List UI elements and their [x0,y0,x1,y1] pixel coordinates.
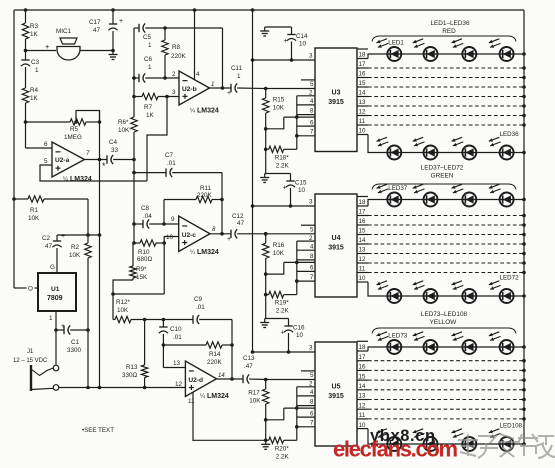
svg-text:3: 3 [309,199,313,206]
pin U5.14 [357,389,368,391]
svg-text:R10: R10 [138,249,150,256]
svg-text:LED73: LED73 [388,333,407,340]
svg-text:10: 10 [359,128,366,135]
pin U3.17 [357,67,368,69]
pin U3.5 signal input [301,79,315,81]
resistor R15 [265,89,267,99]
IC U3 3915 [315,48,357,152]
svg-text:+: + [45,42,50,51]
svg-text:R8: R8 [172,44,181,51]
svg-text:1K: 1K [146,112,155,119]
wire C9 feedback down [231,320,233,380]
svg-text:11: 11 [359,412,366,419]
wire LED row [387,152,524,154]
svg-text:R18*: R18* [275,154,290,161]
resistor R17 [265,380,267,390]
svg-text:C10: C10 [170,326,182,333]
LED LED1-4[4] [489,39,514,61]
pin U4.13 [357,253,368,255]
wire pin10 bias link [163,243,165,294]
svg-text:12 – 15 VDC: 12 – 15 VDC [13,358,48,364]
capacitor C10 [162,320,164,328]
wire pin5 bias [40,165,147,181]
svg-text:LED1: LED1 [388,40,404,47]
svg-text:7809: 7809 [47,295,63,302]
svg-text:1: 1 [237,73,241,80]
svg-text:1MEG: 1MEG [64,134,82,141]
wire dashed row U4.17 [368,215,524,217]
wire dashed row U3.13 [368,105,524,107]
svg-text:LED72: LED72 [500,275,519,282]
wire signal rail mid [133,160,135,244]
pin U5.13 [357,399,368,401]
capacitor C12 [230,230,232,238]
capacitor C17 [112,10,114,24]
svg-text:8: 8 [310,398,314,405]
wire pin6 input [26,147,53,149]
svg-text:3300: 3300 [67,347,82,354]
wire dashed row U5.14 [368,389,524,391]
svg-text:10K: 10K [249,398,261,405]
svg-text:1: 1 [148,64,152,71]
svg-text:.47: .47 [244,363,253,370]
svg-text:YELLOW: YELLOW [430,319,458,326]
wire dashed row U3.15 [368,86,524,88]
svg-text:•SEE TEXT: •SEE TEXT [82,427,114,434]
IC U4 3915 [315,194,357,297]
resistor R9* [130,266,136,278]
wire dashed row U3.17 [368,67,524,69]
resistor R11 [163,200,165,225]
svg-text:2: 2 [309,381,313,388]
capacitor C6 [134,77,139,79]
wire right LED bus [523,10,525,444]
svg-text:14: 14 [218,373,225,379]
svg-text:6: 6 [310,119,314,126]
pin U3.16 [357,77,368,79]
wire dashed row U5.13 [368,399,524,401]
svg-text:6: 6 [44,141,48,148]
svg-text:R13: R13 [126,364,138,371]
svg-text:7: 7 [310,420,314,427]
svg-text:U2-d: U2-d [188,377,203,384]
capacitor C15 [290,174,292,182]
brace yellow group [372,328,516,334]
svg-text:6: 6 [310,410,314,417]
svg-text:C8: C8 [141,205,150,212]
resistor R14 [163,344,206,346]
pin U3.6 tab [284,116,315,118]
brace red group [372,36,516,42]
svg-text:+: + [283,185,287,192]
pin U4.5 signal input [301,224,315,226]
svg-text:10: 10 [298,187,306,194]
IC U5 3915 [315,342,357,446]
wire dashed row U4.14 [368,243,524,245]
svg-text:C14: C14 [296,33,308,40]
svg-text:LED1–LED36: LED1–LED36 [430,20,470,27]
wire bias node [57,234,100,236]
wire dashed row U5.15 [368,379,524,381]
LED LED73-76[1] [377,332,402,354]
svg-text:LED73–LED108: LED73–LED108 [421,311,468,318]
LED LED69-72[4] [489,281,514,303]
wire U2-c output [210,233,231,235]
wire LED row [387,443,524,445]
svg-text:3915: 3915 [328,99,344,106]
wire rail jog [113,280,133,320]
svg-text:15: 15 [359,373,366,380]
resistor R16 [265,234,267,244]
resistor R5 [26,121,71,123]
LED LED73-76[4] [489,332,514,354]
svg-text:C9: C9 [194,296,203,303]
svg-text:330Ω: 330Ω [122,372,138,379]
pin U3.13 [357,105,368,107]
svg-text:U2-c: U2-c [182,232,197,239]
wire U4 ref tie [266,262,284,274]
wire dashed row U3.11 [368,124,524,126]
svg-text:11: 11 [188,398,195,405]
pin U3.2 tab [297,95,315,97]
svg-text:1K: 1K [30,95,39,102]
svg-text:47: 47 [237,220,245,227]
microphone MIC1 [57,47,80,61]
wire pin13 input [162,345,164,368]
wire dashed row U3.12 [368,115,524,117]
svg-text:14: 14 [359,90,366,97]
pin U3.7 tab [297,135,315,137]
svg-text:C1: C1 [71,339,80,346]
LED LED37-40[2] [413,184,438,206]
svg-text:18: 18 [359,52,366,59]
pin U5.6 tab [284,407,315,409]
wire dashed row U3.14 [368,96,524,98]
wire dashed row U4.11 [368,272,524,274]
svg-text:R12*: R12* [116,299,131,306]
svg-text:.01: .01 [196,304,205,311]
wire pin3 bias link [147,97,167,182]
svg-text:LM324: LM324 [197,108,219,115]
brace green group [372,184,516,190]
svg-text:14: 14 [359,383,366,390]
LED LED37-40[1] [377,184,402,206]
resistor R7 [134,96,142,98]
pin U4.6 tab [284,261,315,263]
svg-text:12: 12 [359,402,366,409]
svg-text:220K: 220K [171,53,187,60]
pin U3.11 [357,124,368,126]
svg-text:R20*: R20* [275,445,290,452]
svg-text:5: 5 [310,226,314,233]
resistor R18* 2.2K [266,148,269,150]
svg-text:C2: C2 [42,235,51,242]
wire U3 pin3 V+ [253,59,316,61]
svg-text:7: 7 [310,274,314,281]
svg-text:C6: C6 [144,56,153,63]
regulator U1 7809 [38,273,76,311]
capacitor C8 [134,223,143,225]
svg-text:U5: U5 [332,384,341,391]
pin U5.5 signal input [301,370,315,372]
pin U5.10 [357,428,368,430]
ground U3 bypass [265,26,292,28]
svg-text:11: 11 [359,266,366,273]
svg-text:18: 18 [359,344,366,351]
svg-text:10K: 10K [69,252,81,259]
pin U3.8 tab [297,114,315,116]
LED LED37-40[4] [489,184,514,206]
op-amp U2-b [179,71,210,105]
LED LED105-108[3] [452,429,477,451]
svg-text:9: 9 [171,216,175,223]
resistor R4 [22,88,28,103]
wire U1 pin1 [55,311,57,330]
pin U4.10 [357,281,368,283]
svg-text:RED: RED [442,28,456,35]
pin U3.18 [357,58,368,60]
wire top supply rail [14,9,524,11]
LED LED105-108[1] [377,429,402,451]
pin U3.4 tab [297,104,315,106]
LED LED69-72[1] [377,281,402,303]
capacitor C14 [291,27,293,35]
pin U4.4 tab [297,249,315,251]
svg-text:15K: 15K [136,274,148,281]
resistor R1 [12,197,16,201]
wire dashed row U5.16 [368,369,524,371]
svg-text:U4: U4 [332,235,341,242]
svg-text:14: 14 [359,237,366,244]
pin U4.16 [357,224,368,226]
LED LED37-40[3] [452,184,477,206]
wire U2-a output [85,159,108,161]
ground U4 bypass [265,173,291,175]
svg-text:R9*: R9* [136,266,147,273]
resistor R19* 2.2K [266,294,269,296]
svg-text:3915: 3915 [328,245,344,252]
svg-text:12: 12 [359,109,366,116]
LED LED105-108[4] [489,429,514,451]
pin U3.10 [357,134,368,136]
svg-text:13: 13 [359,99,366,106]
svg-text:C15: C15 [295,180,307,187]
svg-text:2.2K: 2.2K [276,308,290,315]
svg-text:10: 10 [299,41,307,48]
svg-text:15: 15 [359,80,366,87]
svg-text:.04: .04 [143,213,152,220]
capacitor C13 [242,375,244,383]
svg-text:16: 16 [359,364,366,371]
svg-text:5: 5 [44,158,48,165]
ground bottom rail [265,440,267,444]
svg-text:C16: C16 [293,325,305,332]
watermark chinese characters [458,434,555,458]
op-amp U2-c [179,216,210,252]
svg-text:2.2K: 2.2K [276,453,290,460]
svg-text:8: 8 [310,107,314,114]
pin U3.12 [357,115,368,117]
svg-text:10K: 10K [273,250,285,257]
svg-text:+: + [227,236,231,243]
svg-text:3915: 3915 [328,393,344,400]
svg-text:+: + [119,18,123,25]
svg-text:6: 6 [310,265,314,272]
wire dashed row U4.13 [368,253,524,255]
svg-text:5: 5 [310,81,314,88]
wire LED row [387,295,524,297]
svg-text:17: 17 [359,61,366,68]
svg-text:3: 3 [309,53,313,60]
capacitor C5 [134,27,139,29]
svg-text:4: 4 [310,243,314,250]
svg-text:10: 10 [359,422,366,429]
LED LED1-4[2] [413,39,438,61]
wire pin tie vertical U5 [296,387,298,427]
resistor R13 [144,320,146,366]
wire left supply rail [13,10,15,288]
svg-text:C5: C5 [143,34,152,41]
svg-text:10K: 10K [28,215,40,222]
svg-text:elecfans.com: elecfans.com [333,437,458,462]
pin U4.11 [357,272,368,274]
resistor R6* [131,117,137,132]
svg-text:U3: U3 [332,89,341,96]
pin U3.15 [357,86,368,88]
pin U4.2 tab [297,240,315,242]
capacitor C9 [192,315,194,323]
wire dashed row U4.12 [368,262,524,264]
wire mic output [80,50,113,52]
svg-text:R4: R4 [30,87,39,94]
wire dashed row U4.15 [368,234,524,236]
pin U5.18 [357,350,368,352]
svg-text:R7: R7 [144,104,153,111]
capacitor C11 [230,84,232,92]
svg-text:12: 12 [359,256,366,263]
wire C1 to rail [87,330,89,388]
svg-text:2: 2 [172,71,176,78]
pin stub top U5 [357,340,368,342]
ground mic [112,51,114,55]
svg-text:+: + [284,38,288,45]
wire U2a bias rail down [99,111,101,236]
svg-text:U2-a: U2-a [55,157,70,164]
pin stub top U3 [357,48,368,50]
wire pin tie vertical U4 [296,241,298,281]
wire V+ bus [252,10,254,352]
ground U5 bypass [265,318,289,320]
svg-text:O: O [28,286,33,293]
node mic+ [24,49,28,53]
capacitor C2 [56,235,58,241]
svg-text:17: 17 [359,209,366,216]
wire dashed row U5.12 [368,408,524,410]
svg-text:MIC1: MIC1 [56,28,72,35]
wire U5 ref tie [266,408,284,420]
resistor R10 [132,241,136,245]
resistor R8 [164,28,166,40]
svg-text:*: * [102,161,106,171]
svg-text:10K: 10K [273,105,285,112]
svg-text:LM324: LM324 [70,176,92,183]
svg-text:C3: C3 [31,59,40,66]
LED LED33-36[4] [489,137,514,159]
svg-text:680Ω: 680Ω [137,256,153,263]
svg-text:220K: 220K [197,192,213,199]
svg-text:4: 4 [310,389,314,396]
svg-text:1: 1 [35,67,39,74]
svg-text:10: 10 [296,332,304,339]
svg-text:G: G [50,264,55,271]
svg-text:J1: J1 [27,349,34,355]
resistor R12* [113,319,115,321]
pin U5.4 tab [297,395,315,397]
wire U1 input [14,287,27,289]
svg-text:2: 2 [309,90,313,97]
pin stub top U4 [357,196,368,198]
pin U3.14 [357,96,368,98]
wire U2-d output [217,378,244,380]
pin U5.16 [357,369,368,371]
pin U5.8 tab [297,405,315,407]
svg-text:5: 5 [310,372,314,379]
svg-text:10: 10 [166,234,174,241]
svg-text:4: 4 [196,71,200,78]
svg-text:LED36: LED36 [500,131,519,138]
wire C7 feedback down [221,173,223,234]
pin U4.12 [357,262,368,264]
svg-text:LM324: LM324 [207,393,229,400]
wire LED row [387,346,524,348]
svg-text:11: 11 [359,118,366,125]
svg-text:C17: C17 [89,19,101,26]
svg-text:220K: 220K [207,359,223,366]
svg-text:C4: C4 [109,139,118,146]
pin U5.2 tab [297,386,315,388]
svg-text:10K: 10K [117,307,129,314]
svg-text:LED37–LED72: LED37–LED72 [421,165,464,172]
wire R5 bypass loop [76,111,100,123]
svg-text:1: 1 [211,82,214,88]
LED LED105-108[2] [413,429,438,451]
svg-text:C13: C13 [243,355,255,362]
svg-text:+: + [281,330,285,337]
svg-text:8: 8 [310,253,314,260]
svg-text:18: 18 [359,199,366,206]
pin U5.7 tab [297,426,315,428]
svg-text:1: 1 [148,42,152,49]
LED LED69-72[2] [413,281,438,303]
svg-text:LED37: LED37 [388,185,407,192]
wire jack return / bias run [59,387,186,389]
wire bottom ground run [193,439,266,441]
svg-text:R17: R17 [248,390,260,397]
wire LED row [387,53,524,55]
svg-text:16: 16 [359,218,366,225]
svg-text:3: 3 [309,345,313,352]
resistor R2 [87,235,89,243]
pin U5.15 [357,379,368,381]
svg-text:33: 33 [111,147,119,154]
svg-text:R14: R14 [209,351,221,358]
LED LED33-36[2] [413,137,438,159]
svg-text:C7: C7 [165,152,174,159]
LED LED73-76[3] [452,332,477,354]
wire LED row [387,199,524,201]
svg-text:15: 15 [359,228,366,235]
LED LED69-72[3] [452,281,477,303]
